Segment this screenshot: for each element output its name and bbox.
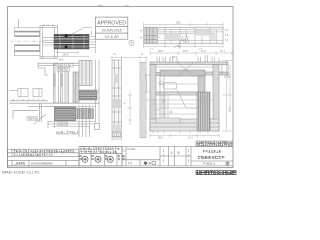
strips S1 S2 left of main right view bbox=[112, 60, 146, 138]
APPROVED stamp box bbox=[95, 17, 127, 39]
M bottom tiny ticks bbox=[153, 131, 208, 134]
C strip body bbox=[144, 27, 223, 44]
hanko circle stamp bbox=[129, 40, 134, 45]
S1 bottom cells and ticks bbox=[112, 132, 122, 141]
right tail lines of view A bbox=[72, 28, 96, 54]
dim ticks above strips bbox=[110, 56, 148, 63]
black dots in view A block bbox=[65, 35, 68, 38]
frame box bbox=[40, 26, 58, 59]
svg-text:10.1: 10.1 bbox=[220, 49, 226, 53]
svg-text:382: 382 bbox=[176, 21, 181, 25]
APPROVED stamp text bbox=[97, 20, 126, 39]
joint mark on top border bbox=[124, 5, 133, 7]
B mid dark cluster bbox=[79, 90, 97, 100]
svg-text:APPROVED: APPROVED bbox=[97, 20, 126, 26]
tall hatched band bbox=[197, 92, 210, 131]
connector lines in frame box bbox=[43, 37, 56, 39]
border frame bbox=[8, 7, 234, 168]
svg-text:10.5: 10.5 bbox=[183, 49, 189, 53]
leader line bbox=[72, 28, 92, 35]
B lower vertical lines bbox=[48, 106, 90, 138]
B labels boxed bbox=[57, 64, 73, 72]
center L band bbox=[160, 70, 205, 76]
svg-text:16.4: 16.4 bbox=[188, 137, 193, 140]
C center details bbox=[174, 34, 189, 48]
svg-text:29.JUN.2015: 29.JUN.2015 bbox=[102, 29, 122, 33]
wall lines right of B bbox=[95, 60, 97, 123]
M top dimensions bbox=[150, 51, 232, 55]
dark sash block of view A bbox=[54, 34, 89, 49]
svg-text:SW1.5n: SW1.5n bbox=[58, 68, 68, 72]
svg-text:B: B bbox=[178, 151, 180, 155]
bottom slab bbox=[150, 119, 219, 131]
svg-text:25.1: 25.1 bbox=[229, 73, 232, 78]
svg-text:P-0001-2: P-0001-2 bbox=[203, 162, 216, 166]
svg-text:P-000: P-000 bbox=[128, 147, 136, 151]
mid vertical member bbox=[73, 72, 79, 103]
svg-text:32.5: 32.5 bbox=[158, 49, 164, 53]
upper vertical channels bbox=[53, 64, 58, 103]
C top dimension line bbox=[144, 23, 223, 29]
M bottom dimension bbox=[150, 134, 219, 138]
small stub line top-left bbox=[18, 19, 20, 28]
centerline bbox=[10, 40, 45, 42]
svg-text:16.1: 16.1 bbox=[201, 49, 207, 53]
top ticks on frame box bbox=[43, 24, 45, 26]
M right dimension column bbox=[145, 61, 233, 132]
stamp circles bbox=[82, 156, 113, 162]
ceiling corner lines top-left bbox=[38, 62, 79, 64]
svg-text:W 970(XR96045): W 970(XR96045) bbox=[31, 161, 53, 165]
C below dimension bbox=[144, 45, 223, 48]
inner vertical partition bbox=[159, 76, 161, 119]
svg-text:C&R.Co: C&R.Co bbox=[58, 122, 68, 126]
revision mini table top right bbox=[196, 141, 233, 146]
svg-text:SW14.3.Sn: SW14.3.Sn bbox=[58, 63, 72, 67]
wall channel bottom bbox=[15, 44, 40, 46]
B sill bottom lines bbox=[48, 122, 95, 127]
vertical text strokes in narrow cells bbox=[124, 149, 189, 162]
vertical text in circle cells bbox=[80, 155, 125, 160]
C shaded cells bbox=[165, 34, 179, 40]
title block bbox=[8, 147, 234, 166]
left wall blocks above floor line bbox=[10, 89, 43, 97]
svg-text:36.5: 36.5 bbox=[229, 107, 232, 112]
svg-text:38.2: 38.2 bbox=[158, 136, 164, 140]
C internal dividers bbox=[165, 27, 217, 44]
C left dense segment bbox=[144, 27, 158, 43]
top-right corner band bbox=[205, 72, 228, 75]
svg-text:IWAKI KOGEI Co.LTD.: IWAKI KOGEI Co.LTD. bbox=[2, 171, 40, 175]
B sill dark block bbox=[55, 107, 76, 121]
right cells bbox=[167, 147, 169, 166]
upper wide member right bbox=[79, 61, 92, 86]
B left wing horizontal lines bbox=[10, 101, 100, 124]
B small label boxes bbox=[27, 117, 38, 121]
top member double walls bbox=[150, 62, 228, 65]
inner shelf band bbox=[156, 92, 197, 95]
svg-text:84.5: 84.5 bbox=[63, 52, 69, 56]
svg-text:SW4.5n: SW4.5n bbox=[28, 117, 38, 121]
svg-text:W.2: W.2 bbox=[59, 57, 64, 61]
left wall bbox=[150, 65, 156, 131]
dim line between S2 and M bbox=[128, 90, 132, 125]
right wall bbox=[213, 65, 219, 131]
view A: horizontal jamb section (top-left) bbox=[10, 19, 58, 59]
svg-text:1/1: 1/1 bbox=[128, 161, 133, 165]
svg-text:Y.K.K AP: Y.K.K AP bbox=[104, 35, 119, 39]
middle stamp box bbox=[79, 147, 122, 166]
title block texts bbox=[14, 147, 229, 166]
view M: main right profile section bbox=[150, 62, 228, 131]
fold mark on top border bbox=[97, 5, 104, 7]
view A dimensions below bbox=[57, 51, 89, 56]
B wall hatch ticks bbox=[12, 98, 45, 100]
bottom-right company text bbox=[196, 171, 236, 175]
middle right cells bbox=[125, 147, 127, 166]
wall channel top bbox=[14, 27, 40, 29]
left box row 3 bbox=[8, 160, 80, 166]
B caption bbox=[56, 131, 78, 133]
left box rows 1-2 bbox=[8, 149, 80, 156]
view B: vertical section (center-left) bbox=[38, 60, 100, 130]
M top fingers with dim arrows bbox=[157, 57, 219, 63]
M inner details bbox=[146, 62, 213, 123]
svg-text:38.2: 38.2 bbox=[172, 55, 178, 59]
